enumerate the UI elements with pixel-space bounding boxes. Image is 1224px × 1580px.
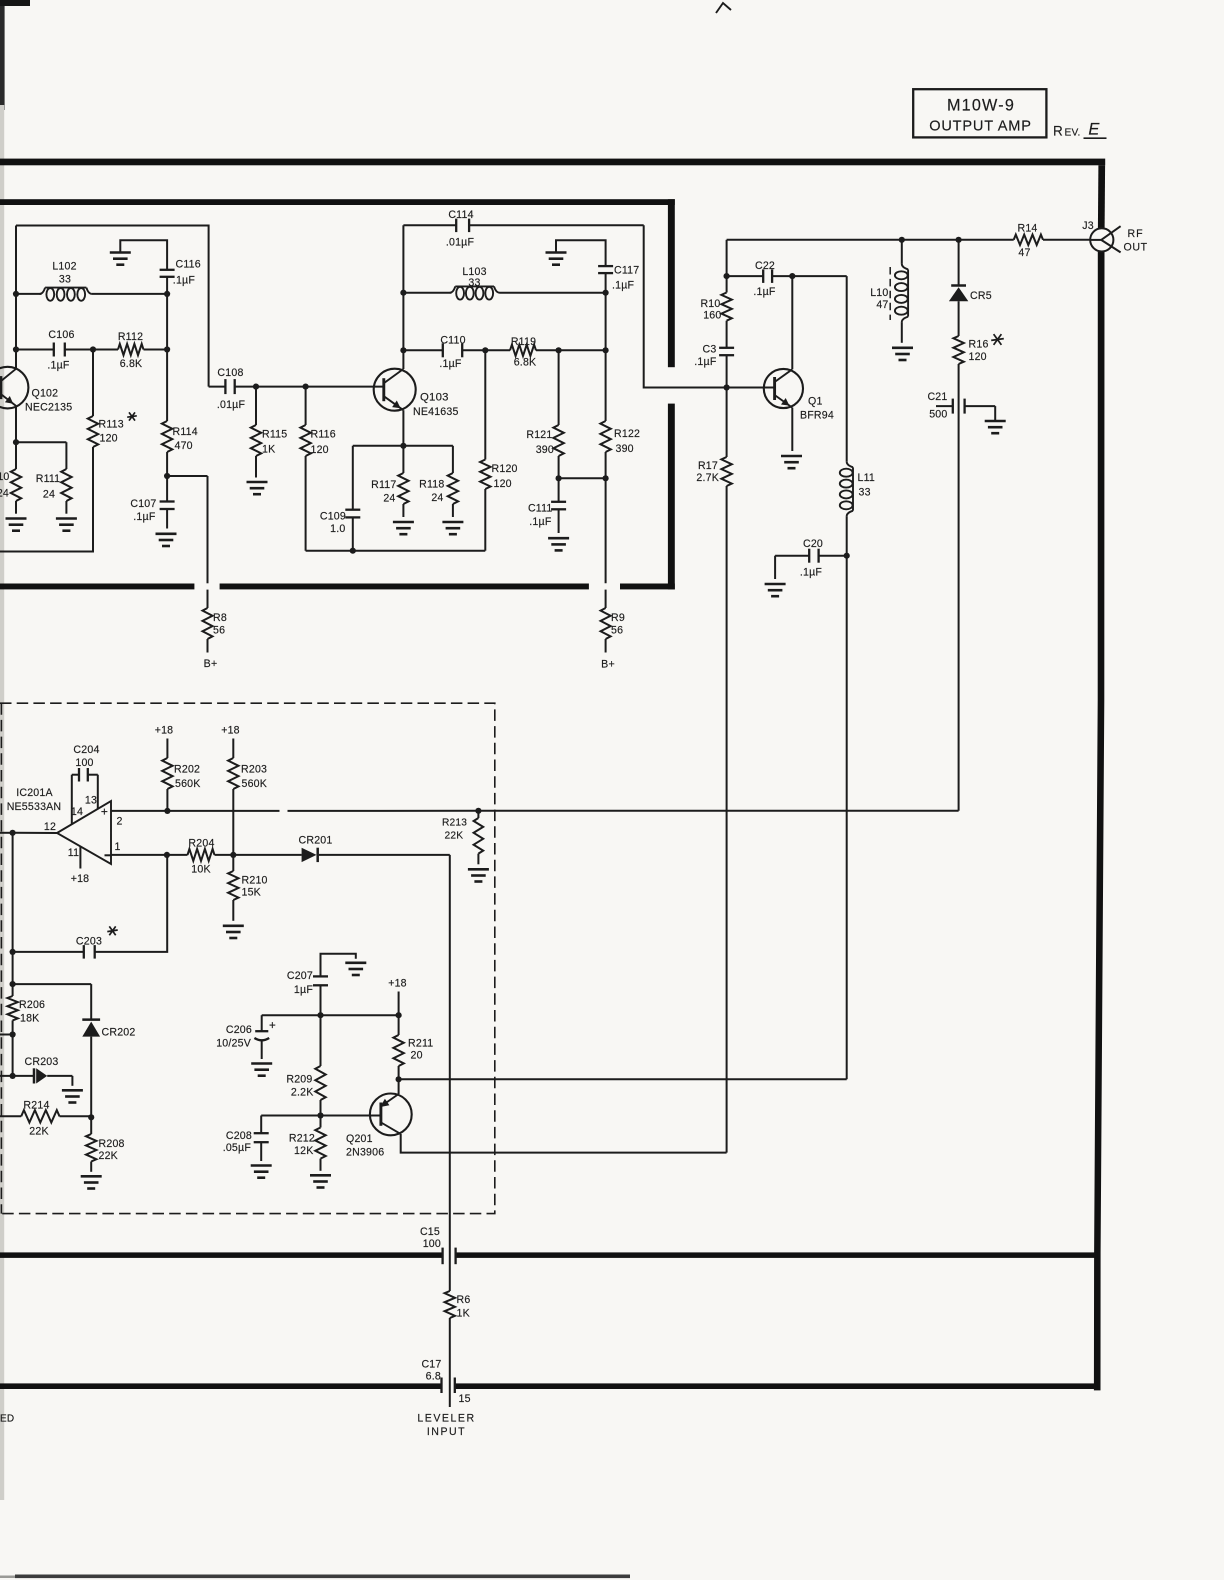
wire Q1 base	[727, 387, 775, 389]
svg-text:L102: L102	[52, 261, 76, 273]
svg-text:C108: C108	[217, 367, 243, 379]
svg-text:2.2K: 2.2K	[291, 1087, 314, 1099]
node C109 bottom	[350, 548, 356, 554]
capacitor C106	[16, 329, 93, 372]
svg-text:20: 20	[411, 1050, 423, 1062]
node Q102 emitter	[13, 439, 19, 445]
node C203 top	[164, 852, 170, 858]
svg-text:R121: R121	[526, 429, 552, 441]
svg-text:C22: C22	[755, 260, 775, 272]
ground under L10	[892, 348, 913, 360]
svg-text:C114: C114	[448, 209, 473, 221]
svg-text:C107: C107	[130, 498, 156, 510]
node C203 left	[10, 949, 16, 955]
svg-text:560K: 560K	[175, 778, 201, 790]
svg-text:M10W-9: M10W-9	[947, 97, 1015, 115]
node L103 right	[603, 290, 609, 296]
svg-text:R120: R120	[492, 463, 518, 475]
svg-text:OUTPUT AMP: OUTPUT AMP	[929, 119, 1032, 135]
svg-text:560K: 560K	[242, 778, 268, 790]
ground under R213	[468, 869, 489, 881]
resistor R114	[162, 421, 198, 476]
resistor R203	[228, 739, 267, 855]
label ED fragment	[0, 1414, 14, 1425]
svg-text:C21: C21	[927, 391, 947, 403]
transistor Q103	[374, 369, 459, 418]
node R206 top	[10, 981, 16, 987]
svg-text:C15: C15	[420, 1226, 440, 1238]
svg-text:24: 24	[43, 489, 55, 501]
svg-text:.1µF: .1µF	[612, 280, 635, 292]
svg-text:10/25V: 10/25V	[216, 1038, 252, 1050]
inductor L11	[840, 462, 875, 556]
resistor R214	[0, 1100, 91, 1138]
svg-text:22K: 22K	[445, 831, 464, 842]
node Q103 emitter	[400, 443, 406, 449]
resistor R17	[696, 388, 731, 1153]
ground under R208	[81, 1176, 102, 1188]
transistor Q1	[764, 369, 834, 422]
resistor R209	[286, 1066, 325, 1116]
wire R8 feed	[167, 476, 207, 608]
svg-text:L10: L10	[870, 287, 888, 299]
svg-text:1µF: 1µF	[294, 984, 313, 996]
svg-text:RF: RF	[1128, 228, 1144, 240]
svg-text:C116: C116	[176, 259, 201, 271]
resistor R112	[93, 331, 167, 370]
wire R206 branch	[13, 952, 92, 996]
svg-text:NEC2135: NEC2135	[25, 402, 72, 414]
node L103 left	[400, 290, 406, 296]
capacitor C20	[775, 538, 847, 579]
wire emitter crossbar	[353, 445, 453, 447]
svg-text:15K: 15K	[242, 887, 261, 899]
wire Q103 base	[256, 386, 384, 388]
svg-text:R16: R16	[969, 339, 989, 351]
capacitor C111	[528, 478, 566, 533]
node CR203 left	[10, 1073, 16, 1079]
svg-text:R209: R209	[286, 1074, 312, 1086]
ground near C21	[985, 421, 1006, 433]
resistor R210	[228, 855, 268, 921]
node L10 top	[899, 237, 905, 243]
svg-text:10: 10	[0, 471, 10, 483]
wire C20 to ground	[774, 556, 776, 579]
svg-text:390: 390	[616, 443, 634, 455]
wire Q1 emitter	[791, 408, 793, 451]
svg-text:E: E	[1088, 121, 1100, 139]
svg-text:NE5533AN: NE5533AN	[7, 801, 62, 813]
resistor R211	[393, 992, 433, 1080]
capacitor C15	[420, 1226, 456, 1264]
capacitor C22	[727, 260, 793, 298]
wire C117 to R122	[605, 273, 607, 421]
svg-text:R208: R208	[99, 1138, 125, 1150]
svg-text:NE41635: NE41635	[413, 406, 459, 418]
svg-text:15: 15	[459, 1393, 471, 1405]
svg-text:R115: R115	[262, 429, 287, 441]
svg-text:120: 120	[969, 351, 987, 363]
svg-text:Q1: Q1	[808, 396, 823, 408]
svg-text:R116: R116	[311, 429, 336, 441]
svg-text:2N3906: 2N3906	[346, 1147, 384, 1159]
svg-text:6.8K: 6.8K	[514, 357, 537, 369]
ground under Q1	[781, 456, 802, 468]
svg-text:24: 24	[383, 493, 395, 505]
svg-text:100: 100	[75, 757, 93, 769]
svg-text:120: 120	[494, 478, 512, 490]
svg-text:2.7K: 2.7K	[696, 472, 719, 484]
revision label REV. E	[1053, 121, 1106, 139]
svg-text:.01µF: .01µF	[217, 399, 246, 411]
wire stage1 top rail	[16, 226, 209, 387]
wire op-amp + input	[111, 810, 959, 812]
svg-text:18K: 18K	[20, 1013, 39, 1025]
wire R121 to R122	[559, 477, 606, 479]
scan tick mark top center	[716, 3, 731, 13]
node R202 bottom	[164, 808, 170, 814]
svg-text:C208: C208	[226, 1130, 252, 1142]
node L102 right	[164, 291, 170, 297]
resistor R16	[953, 301, 1003, 364]
wire emitter down	[398, 1079, 400, 1094]
transistor Q201	[346, 1094, 412, 1159]
wire Q103 emitter	[402, 410, 404, 446]
svg-text:R14: R14	[1017, 223, 1037, 235]
svg-text:R8: R8	[213, 612, 227, 624]
node R212 top	[317, 1112, 323, 1118]
svg-text:R111: R111	[36, 473, 61, 485]
node R115 top	[253, 384, 259, 390]
ground under C208	[251, 1166, 272, 1178]
svg-text:.1µF: .1µF	[753, 286, 776, 298]
svg-text:IC201A: IC201A	[16, 787, 53, 799]
svg-text:R112: R112	[118, 331, 143, 343]
label B+ left	[204, 658, 218, 670]
capacitor C109	[320, 446, 360, 551]
wire stage2 collector line	[402, 225, 404, 369]
capacitor C206	[216, 1015, 276, 1059]
scan edge artifact bottom	[0, 1575, 630, 1579]
resistor R111	[36, 442, 72, 514]
outer right shield line	[1094, 165, 1105, 1390]
wire emitter to L11 line	[399, 1078, 847, 1080]
resistor R202	[162, 739, 200, 811]
svg-text:500: 500	[929, 409, 947, 421]
scan edge artifact top-left	[0, 0, 30, 1500]
node L102 left	[13, 291, 19, 297]
node R213 top	[475, 808, 481, 814]
capacitor C204	[72, 744, 100, 824]
wire C116 to R114	[166, 277, 168, 421]
svg-text:R214: R214	[23, 1100, 49, 1112]
wire leveler input line	[449, 855, 451, 1291]
capacitor C3	[694, 344, 734, 388]
resistor R204	[188, 838, 234, 876]
svg-text:R206: R206	[19, 999, 45, 1011]
resistor R6	[445, 1291, 471, 1377]
svg-text:R202: R202	[174, 764, 200, 776]
svg-text:B+: B+	[601, 659, 615, 671]
svg-text:R213: R213	[442, 818, 467, 829]
diode CR5	[949, 240, 992, 302]
svg-text:C207: C207	[287, 970, 313, 982]
svg-text:C109: C109	[320, 511, 346, 523]
svg-text:L11: L11	[858, 472, 876, 484]
resistor R10	[700, 276, 731, 347]
wire stage1 collector line	[15, 226, 17, 369]
svg-text:R203: R203	[241, 764, 267, 776]
svg-text:.01µF: .01µF	[446, 237, 475, 249]
svg-text:390: 390	[536, 444, 554, 456]
resistor R213	[442, 811, 483, 865]
svg-text:.1µF: .1µF	[133, 511, 156, 523]
svg-text:J3: J3	[1082, 220, 1094, 232]
node C207 bottom	[317, 1012, 323, 1018]
svg-text:R: R	[1053, 124, 1063, 139]
wire C22 to L11	[792, 276, 846, 462]
svg-text:6.8: 6.8	[426, 1371, 441, 1383]
svg-text:R210: R210	[242, 875, 268, 887]
ground under R118	[442, 522, 463, 534]
svg-text:R10: R10	[700, 298, 720, 310]
svg-text:33: 33	[859, 487, 871, 499]
resistor R122	[600, 421, 640, 478]
resistor R117	[371, 446, 408, 517]
svg-text:Q201: Q201	[346, 1133, 373, 1145]
svg-text:CR5: CR5	[970, 290, 992, 302]
svg-text:R119: R119	[511, 336, 536, 348]
svg-text:R204: R204	[188, 838, 214, 850]
svg-text:33: 33	[468, 277, 480, 289]
node R122 bottom	[603, 475, 609, 481]
wire stage2 top rail	[403, 225, 726, 387]
node Q201 emitter	[396, 1076, 402, 1082]
node C106 left	[13, 346, 19, 352]
svg-text:.1µF: .1µF	[529, 516, 552, 528]
svg-text:R211: R211	[408, 1038, 433, 1050]
node R208 top	[88, 1114, 94, 1120]
outer top shield line	[0, 159, 1105, 166]
wire Q201 base	[261, 1115, 381, 1117]
wire R16 down	[958, 364, 960, 811]
svg-text:R114: R114	[173, 426, 198, 438]
node R116 top	[303, 384, 309, 390]
ground under R210	[223, 926, 244, 938]
wire C20 line down	[846, 556, 848, 1080]
ground under C107	[156, 534, 177, 546]
svg-text:470: 470	[175, 440, 193, 452]
diode CR202	[82, 984, 135, 1117]
inductor L102	[16, 261, 167, 301]
node R210 top	[230, 852, 236, 858]
ground under R117	[393, 522, 414, 534]
svg-text:22K: 22K	[29, 1126, 48, 1138]
amplifier module box bottom	[0, 584, 675, 590]
title box	[913, 89, 1046, 137]
ground under R111	[56, 519, 77, 531]
lower shield line with C15	[0, 1252, 1097, 1258]
capacitor C203	[0, 833, 167, 959]
capacitor C108	[209, 367, 256, 411]
resistor R116	[300, 387, 335, 551]
svg-text:C20: C20	[803, 538, 823, 550]
connector J3	[1082, 220, 1147, 254]
node C20	[844, 553, 850, 559]
svg-text:1K: 1K	[457, 1308, 470, 1320]
svg-text:C106: C106	[48, 329, 74, 341]
svg-text:120: 120	[100, 433, 118, 445]
node left stub	[0, 1031, 16, 1037]
node R211 top	[396, 1012, 402, 1018]
leveler section dashed border	[0, 703, 495, 1213]
transistor Q102	[0, 367, 72, 414]
wire R9 feed	[605, 478, 607, 608]
svg-text:R122: R122	[614, 428, 640, 440]
svg-text:R212: R212	[289, 1133, 315, 1145]
ground under R115	[247, 482, 268, 494]
ground near CR203	[62, 1090, 83, 1102]
wire op-amp - input	[111, 854, 188, 856]
svg-text:C111: C111	[528, 503, 553, 515]
svg-text:2: 2	[116, 816, 122, 828]
svg-text:24: 24	[431, 492, 443, 504]
svg-text:C203: C203	[76, 936, 102, 948]
ground near C117	[546, 240, 606, 265]
capacitor C107	[130, 476, 174, 529]
svg-text:6.8K: 6.8K	[120, 358, 143, 370]
wire bias rail	[262, 1014, 399, 1016]
svg-text:1.0: 1.0	[330, 523, 345, 535]
svg-text:.1µF: .1µF	[800, 567, 823, 579]
svg-text:Q102: Q102	[32, 388, 59, 400]
svg-text:C206: C206	[226, 1024, 252, 1036]
inductor L103	[403, 266, 605, 300]
label LEVELER INPUT	[417, 1413, 475, 1439]
capacitor C17	[421, 1359, 454, 1408]
svg-text:C110: C110	[440, 335, 465, 347]
node C110/R120	[482, 347, 488, 353]
resistor R206	[7, 996, 45, 1076]
amplifier module box right	[668, 199, 675, 589]
capacitor C21	[927, 391, 995, 421]
resistor R120	[480, 350, 518, 550]
resistor R110	[0, 442, 21, 514]
svg-text:11: 11	[68, 847, 79, 859]
label B+ right	[601, 659, 615, 671]
svg-text:12K: 12K	[294, 1145, 313, 1157]
svg-text:Q103: Q103	[420, 392, 449, 404]
capacitor C116	[160, 259, 201, 287]
svg-text:ED: ED	[0, 1414, 14, 1425]
diode CR203	[0, 1056, 72, 1086]
svg-text:.1µF: .1µF	[694, 356, 717, 368]
resistor R113	[0, 350, 137, 552]
svg-text:47: 47	[876, 299, 888, 311]
bottom shield line with C17	[0, 1383, 1097, 1389]
svg-text:B+: B+	[204, 658, 218, 670]
node R119 right	[603, 347, 609, 353]
capacitor C114	[446, 209, 475, 249]
svg-text:47: 47	[1018, 247, 1030, 259]
svg-text:160: 160	[703, 310, 721, 322]
resistor R14	[1014, 223, 1091, 260]
svg-text:22K: 22K	[99, 1150, 118, 1162]
svg-text:24: 24	[0, 488, 9, 500]
svg-text:+18: +18	[155, 725, 174, 737]
capacitor C207	[287, 954, 356, 996]
svg-text:.1µF: .1µF	[47, 360, 70, 372]
svg-text:BFR94: BFR94	[800, 410, 834, 422]
resistor R208	[86, 1117, 125, 1172]
svg-text:INPUT: INPUT	[427, 1426, 466, 1438]
svg-text:1K: 1K	[262, 444, 275, 456]
wire Q1 collector	[791, 276, 793, 369]
svg-text:R17: R17	[698, 460, 718, 472]
svg-text:+: +	[269, 1020, 276, 1032]
svg-text:120: 120	[311, 444, 329, 456]
ground under R212	[310, 1175, 331, 1187]
node C106/R113	[90, 346, 96, 352]
svg-text:.05µF: .05µF	[223, 1142, 252, 1154]
svg-text:R118: R118	[419, 479, 444, 491]
svg-text:C3: C3	[703, 344, 717, 356]
svg-text:+18: +18	[388, 978, 407, 990]
ground under C111	[548, 538, 569, 550]
ground near C207	[345, 963, 366, 975]
svg-text:C117: C117	[614, 265, 639, 277]
svg-text:+: +	[101, 805, 108, 819]
label +18 R203	[221, 725, 240, 737]
ground under C20	[765, 584, 786, 596]
terminal 15	[459, 1393, 471, 1405]
node CR5 top	[956, 237, 962, 243]
ground under C206	[251, 1064, 272, 1076]
resistor R121	[526, 350, 563, 478]
svg-text:10K: 10K	[191, 864, 210, 876]
svg-text:.1µF: .1µF	[439, 358, 462, 370]
ground under R110	[6, 519, 27, 531]
capacitor C117	[598, 265, 639, 292]
resistor R9	[601, 608, 625, 653]
label +18 R202	[155, 725, 174, 737]
capacitor C208	[223, 1116, 269, 1162]
wire Q1 collector rail	[727, 240, 1014, 276]
svg-text:.1µF: .1µF	[173, 275, 196, 287]
op-amp IC201A	[7, 787, 123, 885]
resistor R118	[419, 446, 458, 517]
wire Q201 collector	[401, 1134, 727, 1153]
node R121 top	[556, 347, 562, 353]
diode CR201	[233, 835, 449, 863]
svg-text:R113: R113	[99, 419, 124, 431]
resistor R212	[289, 1116, 326, 1171]
node C110 left	[400, 347, 406, 353]
svg-text:C17: C17	[421, 1359, 441, 1371]
svg-text:OUT: OUT	[1124, 242, 1148, 254]
svg-text:+18: +18	[221, 725, 240, 737]
node C22 left	[724, 273, 730, 279]
svg-text:CR202: CR202	[102, 1027, 136, 1039]
svg-text:56: 56	[611, 625, 623, 637]
svg-text:LEVELER: LEVELER	[417, 1413, 475, 1425]
amplifier module box top	[0, 199, 675, 205]
svg-text:12: 12	[44, 821, 56, 833]
resistor R115	[251, 387, 288, 478]
label +18 R211	[388, 978, 407, 990]
svg-text:C204: C204	[73, 744, 99, 756]
svg-text:1: 1	[114, 841, 120, 853]
